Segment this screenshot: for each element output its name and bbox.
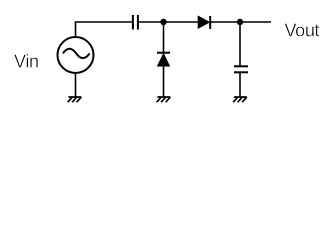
wire C2 to ground (239, 73, 241, 97)
capacitor C1 (series) (133, 15, 138, 30)
diode D2 (series) (198, 16, 210, 29)
node junction B (237, 19, 243, 25)
wire node B down to C2 (239, 22, 241, 66)
svg-text:Vout: Vout (285, 21, 320, 41)
wire source top to rail (75, 22, 77, 37)
wire source bottom to ground (75, 74, 77, 98)
wire rail D2 to end (210, 21, 271, 23)
ground G1 (under source) (68, 97, 82, 102)
ground G2 (under D1) (157, 97, 171, 102)
wire node A down to D1 (163, 22, 165, 52)
capacitor C2 (shunt) (234, 66, 248, 72)
ground G3 (under C2) (233, 97, 247, 102)
wire rail C1 to D2 (139, 21, 198, 23)
ac source V1 (58, 37, 94, 73)
diode D1 (shunt, cathode up) (157, 53, 170, 66)
node junction A (160, 19, 166, 25)
wire top rail left segment (75, 21, 132, 23)
wire D1 anode to ground (163, 66, 165, 97)
svg-text:Vin: Vin (14, 52, 39, 72)
